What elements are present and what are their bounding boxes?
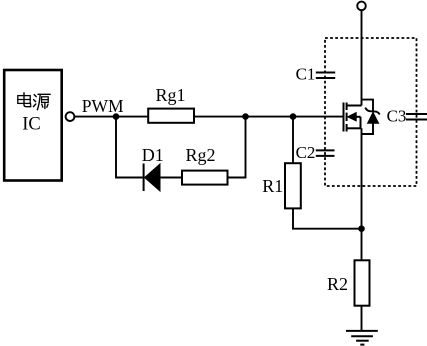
svg-text:IC: IC [22, 114, 41, 134]
wire down to R1 [292, 117, 294, 164]
junction node PWM [113, 113, 120, 120]
wire D1 to Rg2 [160, 177, 182, 179]
capacitor C1 [316, 73, 335, 79]
svg-text:PWM: PWM [82, 96, 124, 116]
resistor R1 [285, 163, 301, 208]
junction node source/R2 [358, 225, 365, 232]
svg-text:Rg2: Rg2 [185, 145, 215, 165]
wire R2 to ground [361, 306, 363, 331]
svg-text:R2: R2 [327, 274, 348, 294]
wire drain vertical [361, 10, 363, 105]
wire source vertical [361, 128, 363, 260]
power IC box U1 [4, 70, 62, 181]
resistor Rg1 [148, 109, 194, 123]
capacitor C2 [316, 150, 335, 156]
resistor Rg2 [182, 171, 228, 185]
wire PWM horizontal main [74, 116, 343, 118]
body diode of Q1 [362, 100, 380, 134]
capacitor C3 [406, 114, 427, 120]
svg-text:C1: C1 [296, 64, 316, 83]
svg-text:C3: C3 [387, 106, 407, 125]
svg-text:C2: C2 [296, 143, 316, 162]
svg-text:R1: R1 [262, 176, 283, 196]
terminal PWM output pin [66, 112, 75, 121]
terminal drain top pin [357, 2, 366, 11]
wire Rg2 up to main [228, 117, 246, 178]
diode D1 [144, 164, 160, 192]
svg-text:D1: D1 [142, 145, 164, 165]
label 电源 (power source) [18, 93, 50, 110]
junction node R1 branch [290, 113, 297, 120]
dashed box MOSFET package [325, 38, 417, 186]
ground [346, 331, 378, 345]
resistor R2 [355, 260, 370, 305]
junction node Rg1 right [242, 113, 249, 120]
transistor Q1 MOSFET [344, 103, 362, 132]
svg-text:Rg1: Rg1 [155, 85, 185, 105]
wire junction to D1 [116, 117, 143, 178]
wire R1 bottom to source node [293, 208, 362, 228]
